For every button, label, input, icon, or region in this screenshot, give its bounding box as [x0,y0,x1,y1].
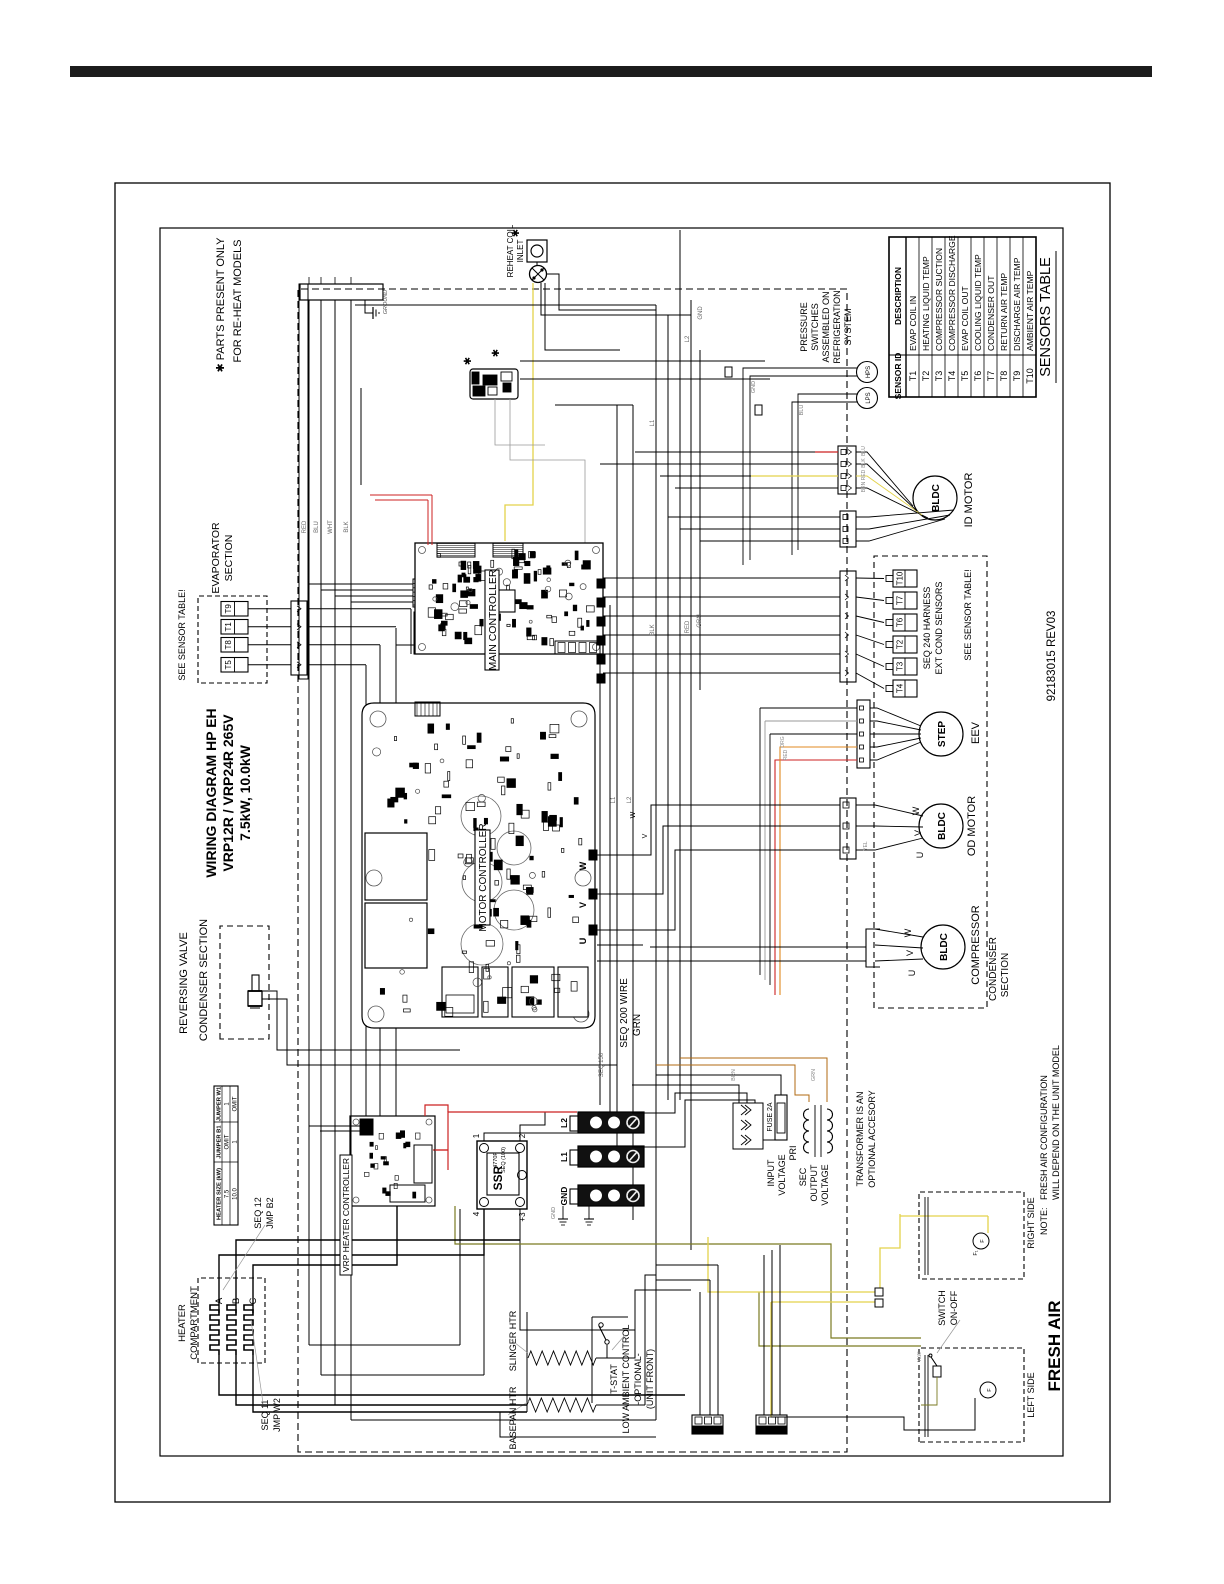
svg-text:L2: L2 [627,796,633,803]
svg-text:TRANSFORMER IS AN: TRANSFORMER IS AN [855,1091,865,1186]
svg-text:RIGHT SIDE: RIGHT SIDE [1026,1197,1036,1248]
svg-text:INPUT: INPUT [766,1159,776,1187]
svg-text:SEQ 11: SEQ 11 [260,1400,270,1431]
svg-text:VRP HEATER CONTROLLER: VRP HEATER CONTROLLER [341,1158,351,1272]
svg-text:T-STAT: T-STAT [609,1364,619,1394]
svg-text:L2: L2 [685,335,691,342]
svg-text:F₁: F₁ [973,1250,979,1255]
svg-text:T3: T3 [896,661,905,671]
svg-text:+3: +3 [518,1212,527,1222]
svg-text:SYSTEM: SYSTEM [843,308,853,345]
svg-text:SWITCH: SWITCH [937,1290,947,1326]
svg-text:EXT COND SENSORS: EXT COND SENSORS [934,582,944,675]
svg-text:4770F: 4770F [493,1152,499,1168]
svg-text:T8: T8 [224,640,233,650]
svg-text:JUMPER W1: JUMPER W1 [216,1086,222,1121]
svg-text:PRESSURE: PRESSURE [799,302,809,352]
svg-text:BLU: BLU [861,446,867,456]
svg-text:L1: L1 [559,1152,569,1162]
svg-text:REVERSING VALVE: REVERSING VALVE [178,932,190,1034]
svg-text:T1: T1 [224,622,233,632]
svg-text:10.0: 10.0 [232,1188,238,1200]
svg-text:COMPRESSOR SUCTION: COMPRESSOR SUCTION [934,248,944,351]
svg-text:T4: T4 [947,371,957,382]
svg-text:BLK: BLK [861,458,867,468]
svg-text:T10: T10 [896,571,905,585]
svg-text:ASSEMBLED ON: ASSEMBLED ON [821,291,831,362]
svg-text:SENSORS TABLE: SENSORS TABLE [1038,257,1054,377]
svg-text:GRN: GRN [811,1069,817,1081]
svg-text:BRN: BRN [731,1069,737,1081]
svg-text:U: U [907,970,917,977]
svg-text:SWITCHES: SWITCHES [810,303,820,351]
svg-text:T7: T7 [986,371,996,382]
svg-text:U: U [915,852,925,859]
svg-text:V: V [905,950,915,956]
svg-text:ON-OFF: ON-OFF [949,1290,959,1325]
svg-text:BLDC: BLDC [937,812,948,840]
svg-text:L1: L1 [650,419,656,426]
svg-text:V: V [642,833,649,838]
svg-text:FRESH AIR: FRESH AIR [1045,1301,1064,1392]
svg-text:T4: T4 [896,683,905,693]
svg-text:DISCHARGE AIR TEMP: DISCHARGE AIR TEMP [1012,257,1022,351]
svg-text:OMIT: OMIT [224,1134,230,1149]
svg-text:HEATER SIZE (kW): HEATER SIZE (kW) [216,1168,222,1220]
svg-text:FRESH AIR CONFIGURATION: FRESH AIR CONFIGURATION [1039,1075,1049,1200]
svg-text:SEE SENSOR TABLE!: SEE SENSOR TABLE! [963,569,973,660]
svg-text:BLU: BLU [799,405,805,416]
svg-text:BLDC: BLDC [931,484,942,512]
svg-text:EVAPORATOR: EVAPORATOR [210,522,222,594]
svg-text:✱: ✱ [511,229,522,237]
svg-text:EVAP COIL OUT: EVAP COIL OUT [960,285,970,351]
svg-text:GND: GND [559,1187,569,1206]
svg-text:BLK: BLK [650,624,656,635]
svg-text:T8: T8 [999,371,1009,382]
svg-text:4: 4 [472,1211,481,1216]
svg-text:MOTOR CONTROLLER: MOTOR CONTROLLER [478,823,489,931]
svg-text:CONDENSER OUT: CONDENSER OUT [986,275,996,351]
svg-text:SECTION: SECTION [223,535,235,582]
svg-text:WILL DEPEND ON THE UNIT MODEL: WILL DEPEND ON THE UNIT MODEL [1051,1045,1061,1200]
svg-text:CONDENSER SECTION: CONDENSER SECTION [198,919,210,1041]
svg-text:7.5kW, 10.0kW: 7.5kW, 10.0kW [237,744,253,841]
svg-text:RED: RED [685,620,691,633]
svg-text:VOLTAGE: VOLTAGE [820,1164,830,1205]
svg-text:REFRIGERATION: REFRIGERATION [832,290,842,363]
svg-text:COMPRESSOR DISCHARGE: COMPRESSOR DISCHARGE [947,235,957,351]
svg-text:SEQ 150: SEQ 150 [599,1052,605,1077]
svg-text:FOR RE-HEAT MODELS: FOR RE-HEAT MODELS [232,239,244,362]
svg-text:LPS: LPS [866,392,872,403]
svg-text:-OPTIONAL-: -OPTIONAL- [633,1353,643,1405]
svg-text:T9: T9 [224,604,233,614]
svg-text:HPS: HPS [866,366,872,378]
svg-text:SLINGER HTR: SLINGER HTR [508,1310,518,1371]
svg-text:RETURN AIR TEMP: RETURN AIR TEMP [999,273,1009,351]
svg-text:JMP W2: JMP W2 [272,1398,282,1432]
svg-text:MAIN CONTROLLER: MAIN CONTROLLER [487,569,499,670]
svg-text:SEC: SEC [798,1167,808,1186]
svg-text:GROUND: GROUND [383,290,389,314]
svg-text:(UNIT FRONT): (UNIT FRONT) [645,1349,655,1409]
svg-text:WHT: WHT [328,520,334,534]
svg-text:T9: T9 [1012,371,1022,382]
svg-text:1: 1 [472,1133,481,1138]
svg-text:T6: T6 [973,371,983,382]
svg-text:EEV: EEV [970,721,982,744]
svg-text:T2: T2 [921,371,931,382]
svg-text:AMBIENT AIR TEMP: AMBIENT AIR TEMP [1025,270,1035,351]
svg-text:T3: T3 [934,371,944,382]
svg-text:92183015 REV03: 92183015 REV03 [1046,611,1058,702]
svg-text:✱: ✱ [491,349,502,357]
svg-text:T2: T2 [896,639,905,649]
svg-text:T5: T5 [960,371,970,382]
svg-text:7.5: 7.5 [224,1189,230,1198]
svg-text:T5: T5 [224,660,233,670]
svg-text:L1: L1 [611,796,617,803]
svg-text:LEFT SIDE: LEFT SIDE [1026,1372,1036,1417]
svg-text:T10: T10 [1025,368,1035,384]
svg-text:SECTION: SECTION [1000,953,1011,997]
svg-text:HEATER: HEATER [177,1304,188,1342]
svg-text:LOW AMBIENT CONTROL: LOW AMBIENT CONTROL [621,1325,631,1434]
svg-text:INLET: INLET [516,240,525,263]
svg-text:EVAP COIL IN: EVAP COIL IN [908,296,918,351]
svg-text:U: U [578,938,588,945]
svg-text:V: V [913,830,923,836]
svg-text:OMIT: OMIT [232,1096,238,1111]
svg-text:CONDENSER: CONDENSER [988,937,999,1001]
svg-text:L2: L2 [559,1118,569,1128]
svg-text:JMP B2: JMP B2 [265,1197,275,1228]
svg-text:COOLING LIQUID TEMP: COOLING LIQUID TEMP [973,254,983,351]
svg-text:SEQ 240 HARNESS: SEQ 240 HARNESS [922,587,932,670]
svg-text:T1: T1 [908,371,918,382]
svg-text:OUTPUT: OUTPUT [809,1164,819,1202]
svg-text:RED: RED [783,749,789,760]
svg-text:STEP: STEP [937,721,948,747]
svg-text:YLW: YLW [917,1351,923,1362]
svg-text:BLU: BLU [314,521,320,533]
svg-text:RED: RED [302,520,308,533]
svg-text:✱ PARTS PRESENT ONLY: ✱ PARTS PRESENT ONLY [215,237,227,373]
svg-text:DESCRIPTION: DESCRIPTION [893,267,903,325]
svg-text:WIRING DIAGRAM HP EH: WIRING DIAGRAM HP EH [203,708,219,877]
svg-text:SEQ 12: SEQ 12 [253,1197,263,1229]
svg-text:COMPARTMENT: COMPARTMENT [189,1286,200,1360]
svg-text:SEE SENSOR TABLE!: SEE SENSOR TABLE! [177,589,187,680]
svg-text:OD MOTOR: OD MOTOR [966,796,978,856]
svg-text:OPTIONAL ACCESORY: OPTIONAL ACCESORY [867,1090,877,1188]
svg-text:COMPRESSOR: COMPRESSOR [970,905,982,985]
svg-text:GND: GND [751,381,757,393]
svg-text:BLDC: BLDC [939,933,950,961]
svg-text:GRN: GRN [632,1014,643,1036]
svg-text:RED: RED [861,469,867,480]
svg-text:NOTE:: NOTE: [1039,1207,1049,1235]
svg-text:FUSE 2A: FUSE 2A [767,1102,774,1132]
svg-text:V: V [578,902,588,908]
svg-text:JUMPER B1: JUMPER B1 [216,1125,222,1159]
svg-text:ORG: ORG [780,736,786,748]
svg-text:2: 2 [518,1133,527,1138]
svg-text:VRP12R / VRP24R 265V: VRP12R / VRP24R 265V [220,714,236,872]
svg-text:SENSOR ID: SENSOR ID [893,353,903,400]
svg-text:GND: GND [551,1207,557,1219]
svg-text:ID MOTOR: ID MOTOR [963,473,975,528]
svg-text:GND: GND [698,306,704,320]
svg-text:BRN: BRN [861,481,867,492]
svg-text:✱: ✱ [463,357,474,365]
svg-text:W: W [578,861,588,870]
svg-text:VOLTAGE: VOLTAGE [777,1154,787,1195]
svg-text:HEATING LIQUID TEMP: HEATING LIQUID TEMP [921,256,931,351]
svg-text:W: W [911,806,921,815]
svg-text:T7: T7 [896,595,905,605]
svg-text:T6: T6 [896,617,905,627]
svg-text:GRN: GRN [697,614,703,627]
svg-text:YEL: YEL [863,841,869,851]
svg-text:PRI: PRI [788,1145,798,1160]
svg-text:W: W [903,928,913,937]
svg-text:BLK: BLK [344,521,350,532]
svg-text:SEQ (100): SEQ (100) [501,1147,507,1173]
svg-text:SEQ 200 WIRE: SEQ 200 WIRE [619,978,630,1048]
